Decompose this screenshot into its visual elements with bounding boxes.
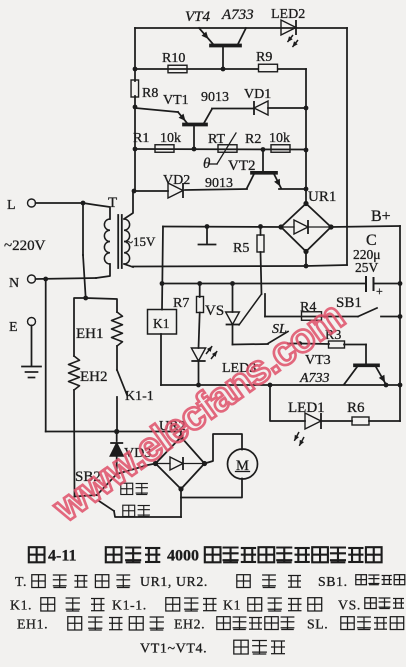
caption line T/UR/SB1 (15, 574, 405, 589)
wire EH2 bottom down (73, 390, 76, 497)
wire N line (36, 278, 97, 279)
transistor VT4 (185, 7, 254, 69)
resistor R8 (131, 80, 158, 101)
wire left rail upper x135 (134, 28, 136, 81)
resistor R10 (162, 51, 187, 73)
node left-rail/R10 junction (133, 67, 138, 72)
motor M (228, 449, 258, 479)
svg-text:R9: R9 (256, 50, 272, 65)
wire UR2 top stub (180, 432, 182, 438)
svg-text:4000: 4000 (167, 548, 199, 565)
svg-text:N: N (9, 276, 19, 291)
svg-text:~15V: ~15V (126, 234, 156, 249)
wire B+ line (331, 226, 400, 227)
thermistor RT (203, 132, 237, 172)
wire L to junction (36, 202, 84, 204)
svg-text:10k: 10k (160, 131, 181, 146)
wire UR2 left to VD3/SB2 (117, 464, 156, 475)
diode VD3 (110, 432, 151, 475)
LED LED3 (191, 346, 256, 385)
label baowen (121, 483, 148, 494)
wire line-A y226 (163, 226, 281, 229)
svg-text:VT4: VT4 (185, 9, 211, 25)
wire R5 gate drop (264, 294, 266, 317)
bridge rectifier UR2 (153, 419, 207, 492)
svg-text:E: E (9, 320, 18, 335)
resistor R9 (256, 50, 278, 72)
wire motor top (205, 434, 243, 464)
svg-text:9013: 9013 (201, 90, 229, 105)
svg-text:B+: B+ (371, 208, 391, 225)
watermark (44, 293, 352, 531)
svg-text:LED2: LED2 (271, 7, 305, 22)
node LED3 junction (196, 383, 201, 388)
wire long supply line y283 (162, 283, 366, 285)
heater EH2 (69, 356, 108, 390)
svg-text:+: + (376, 284, 383, 298)
svg-text:10k: 10k (269, 131, 290, 146)
terminal E (9, 318, 36, 336)
svg-text:K1.: K1. (10, 598, 32, 613)
wire motor bottom (181, 479, 242, 498)
caption line EH/SL (17, 617, 404, 632)
caption title line (29, 547, 382, 564)
svg-text:VT1~VT4.: VT1~VT4. (140, 642, 207, 657)
wire N rail down (45, 279, 47, 432)
node VT4 base junction (221, 67, 226, 72)
svg-text:RT: RT (208, 132, 225, 147)
svg-text:VD1: VD1 (244, 87, 271, 102)
capacitor tap symbol (199, 227, 216, 245)
node bridge bottom junction (304, 264, 309, 269)
node R5 top junction (258, 224, 263, 229)
terminal L (7, 198, 36, 213)
thyristor VS (205, 284, 262, 345)
wire rail x347 (346, 28, 348, 265)
svg-text:T: T (108, 195, 117, 211)
transistor VT3 (299, 345, 386, 387)
wire vertical x163 (162, 227, 163, 310)
svg-text:K1-1.: K1-1. (112, 598, 147, 613)
svg-text:K1: K1 (223, 598, 241, 613)
node R7 top junction (197, 281, 202, 286)
wire plus rail x400 (399, 226, 401, 385)
wire VD2 line (134, 190, 168, 192)
node R2 right junction (304, 148, 309, 153)
resistor R7 (173, 284, 204, 349)
svg-text:EH1: EH1 (76, 326, 104, 342)
resistor R5 (233, 227, 264, 295)
node LED1 branch junction (268, 383, 273, 388)
svg-text:K1-1: K1-1 (125, 389, 154, 404)
capacitor C (353, 232, 400, 298)
wire VD2 to VT2 emitter (185, 189, 247, 190)
svg-text:R10: R10 (162, 51, 185, 66)
resistor R2 10k (245, 131, 290, 152)
node VT2 collector junction (304, 187, 309, 192)
svg-text:A733: A733 (221, 7, 254, 23)
svg-text:R5: R5 (233, 241, 249, 256)
node VT1 emitter tap (133, 105, 138, 110)
label B+ (371, 208, 391, 225)
label ~220V (4, 238, 46, 254)
svg-text:SB1.: SB1. (318, 574, 348, 589)
LED LED2 (271, 7, 305, 47)
switch K1-1 (117, 346, 127, 432)
wire L junction down (83, 203, 86, 298)
svg-text:UR1: UR1 (308, 189, 336, 205)
svg-text:9013: 9013 (205, 176, 233, 191)
relay K1 (148, 310, 177, 386)
node VD3 top junction (114, 429, 119, 434)
switch SB2 (75, 469, 182, 517)
wire primary bottom lead (96, 264, 110, 278)
svg-text:R6: R6 (347, 400, 365, 416)
wire rail x306 upper (305, 69, 307, 203)
node N junction (43, 277, 48, 282)
node R1 line left (133, 147, 138, 152)
wire LED1 branch (270, 385, 305, 421)
svg-text:EH2.: EH2. (174, 617, 205, 632)
wire VS cathode line (233, 343, 269, 346)
wire R1 line (135, 148, 306, 151)
svg-text:L: L (7, 198, 16, 213)
node rail y385 junction (398, 383, 403, 388)
node VD1 junction (304, 106, 309, 111)
wire R9 right to corner (278, 68, 306, 70)
switch SB1 (336, 295, 402, 319)
node heater split junction (83, 296, 88, 301)
wire R4 line (265, 316, 358, 318)
svg-text:R2: R2 (245, 132, 261, 147)
svg-text:EH2: EH2 (80, 369, 108, 385)
svg-text:R7: R7 (173, 296, 189, 311)
diode VD2 (163, 173, 190, 198)
svg-text:UR1, UR2.: UR1, UR2. (140, 574, 208, 589)
node cap out junction (398, 281, 403, 286)
svg-text:A733: A733 (299, 371, 330, 386)
svg-text:θ: θ (203, 156, 211, 172)
svg-text:K1: K1 (153, 316, 170, 331)
heater EH1 (76, 312, 123, 346)
node VD2 line left (132, 189, 137, 194)
svg-text:VD2: VD2 (163, 173, 190, 188)
transformer T (104, 195, 129, 268)
label ~15V (126, 234, 156, 249)
node K1 feed junction (160, 281, 165, 286)
label K1-1 (125, 389, 154, 404)
node VS anode junction (230, 281, 235, 286)
node VT2 base junction (261, 147, 266, 152)
switch SL (268, 322, 302, 346)
transistor VT2 (205, 150, 281, 191)
caption line VT1-VT4 (140, 640, 285, 656)
wire top rail y28 (135, 27, 347, 29)
wire line-B continues to rail (306, 265, 347, 266)
caption line K1/VS (10, 598, 404, 613)
svg-text:SB1: SB1 (336, 295, 362, 311)
wire VT2 collector to rail (279, 188, 306, 190)
svg-text:VT2: VT2 (228, 158, 256, 174)
diode VD1 (244, 87, 306, 115)
wire L to primary (83, 203, 110, 219)
node VT1 base junction (192, 147, 197, 152)
terminal N (9, 275, 36, 291)
wire left rail R8 lower (134, 96, 136, 191)
svg-text:4-11: 4-11 (48, 548, 76, 565)
svg-text:25V: 25V (355, 260, 379, 275)
svg-text:EH1.: EH1. (17, 617, 48, 632)
wire neutral bottom line (46, 431, 181, 433)
wire R10 line (135, 68, 258, 70)
resistor R1 10k (133, 131, 181, 152)
node cap-tap junction (205, 224, 210, 229)
node L junction (81, 201, 86, 206)
ground symbol (22, 326, 41, 378)
svg-text:~220V: ~220V (4, 238, 46, 254)
resistor R3 (300, 328, 366, 348)
LED LED1 (288, 400, 325, 446)
resistor R6 (322, 385, 400, 425)
resistor R4 (300, 300, 322, 320)
svg-text:T.: T. (15, 574, 27, 589)
svg-text:VT1: VT1 (163, 93, 189, 108)
wire secondary bottom lead (124, 264, 306, 267)
wire main line y385 (161, 384, 400, 386)
bridge rectifier UR1 (278, 189, 336, 266)
transistor VT1 (135, 90, 254, 149)
wire UR2 bottom down (180, 489, 182, 517)
svg-text:R1: R1 (133, 131, 149, 146)
svg-text:R8: R8 (142, 86, 158, 101)
wire secondary top lead (124, 191, 133, 219)
svg-text:VS: VS (205, 303, 224, 319)
svg-text:LED1: LED1 (288, 400, 325, 416)
node VT3 collector junction (384, 383, 389, 388)
svg-text:VS.: VS. (338, 598, 361, 613)
wire EH1 branch top (86, 298, 117, 312)
svg-text:SL.: SL. (307, 617, 328, 632)
wire EH2 branch top (74, 298, 86, 356)
label chushui (123, 505, 150, 516)
